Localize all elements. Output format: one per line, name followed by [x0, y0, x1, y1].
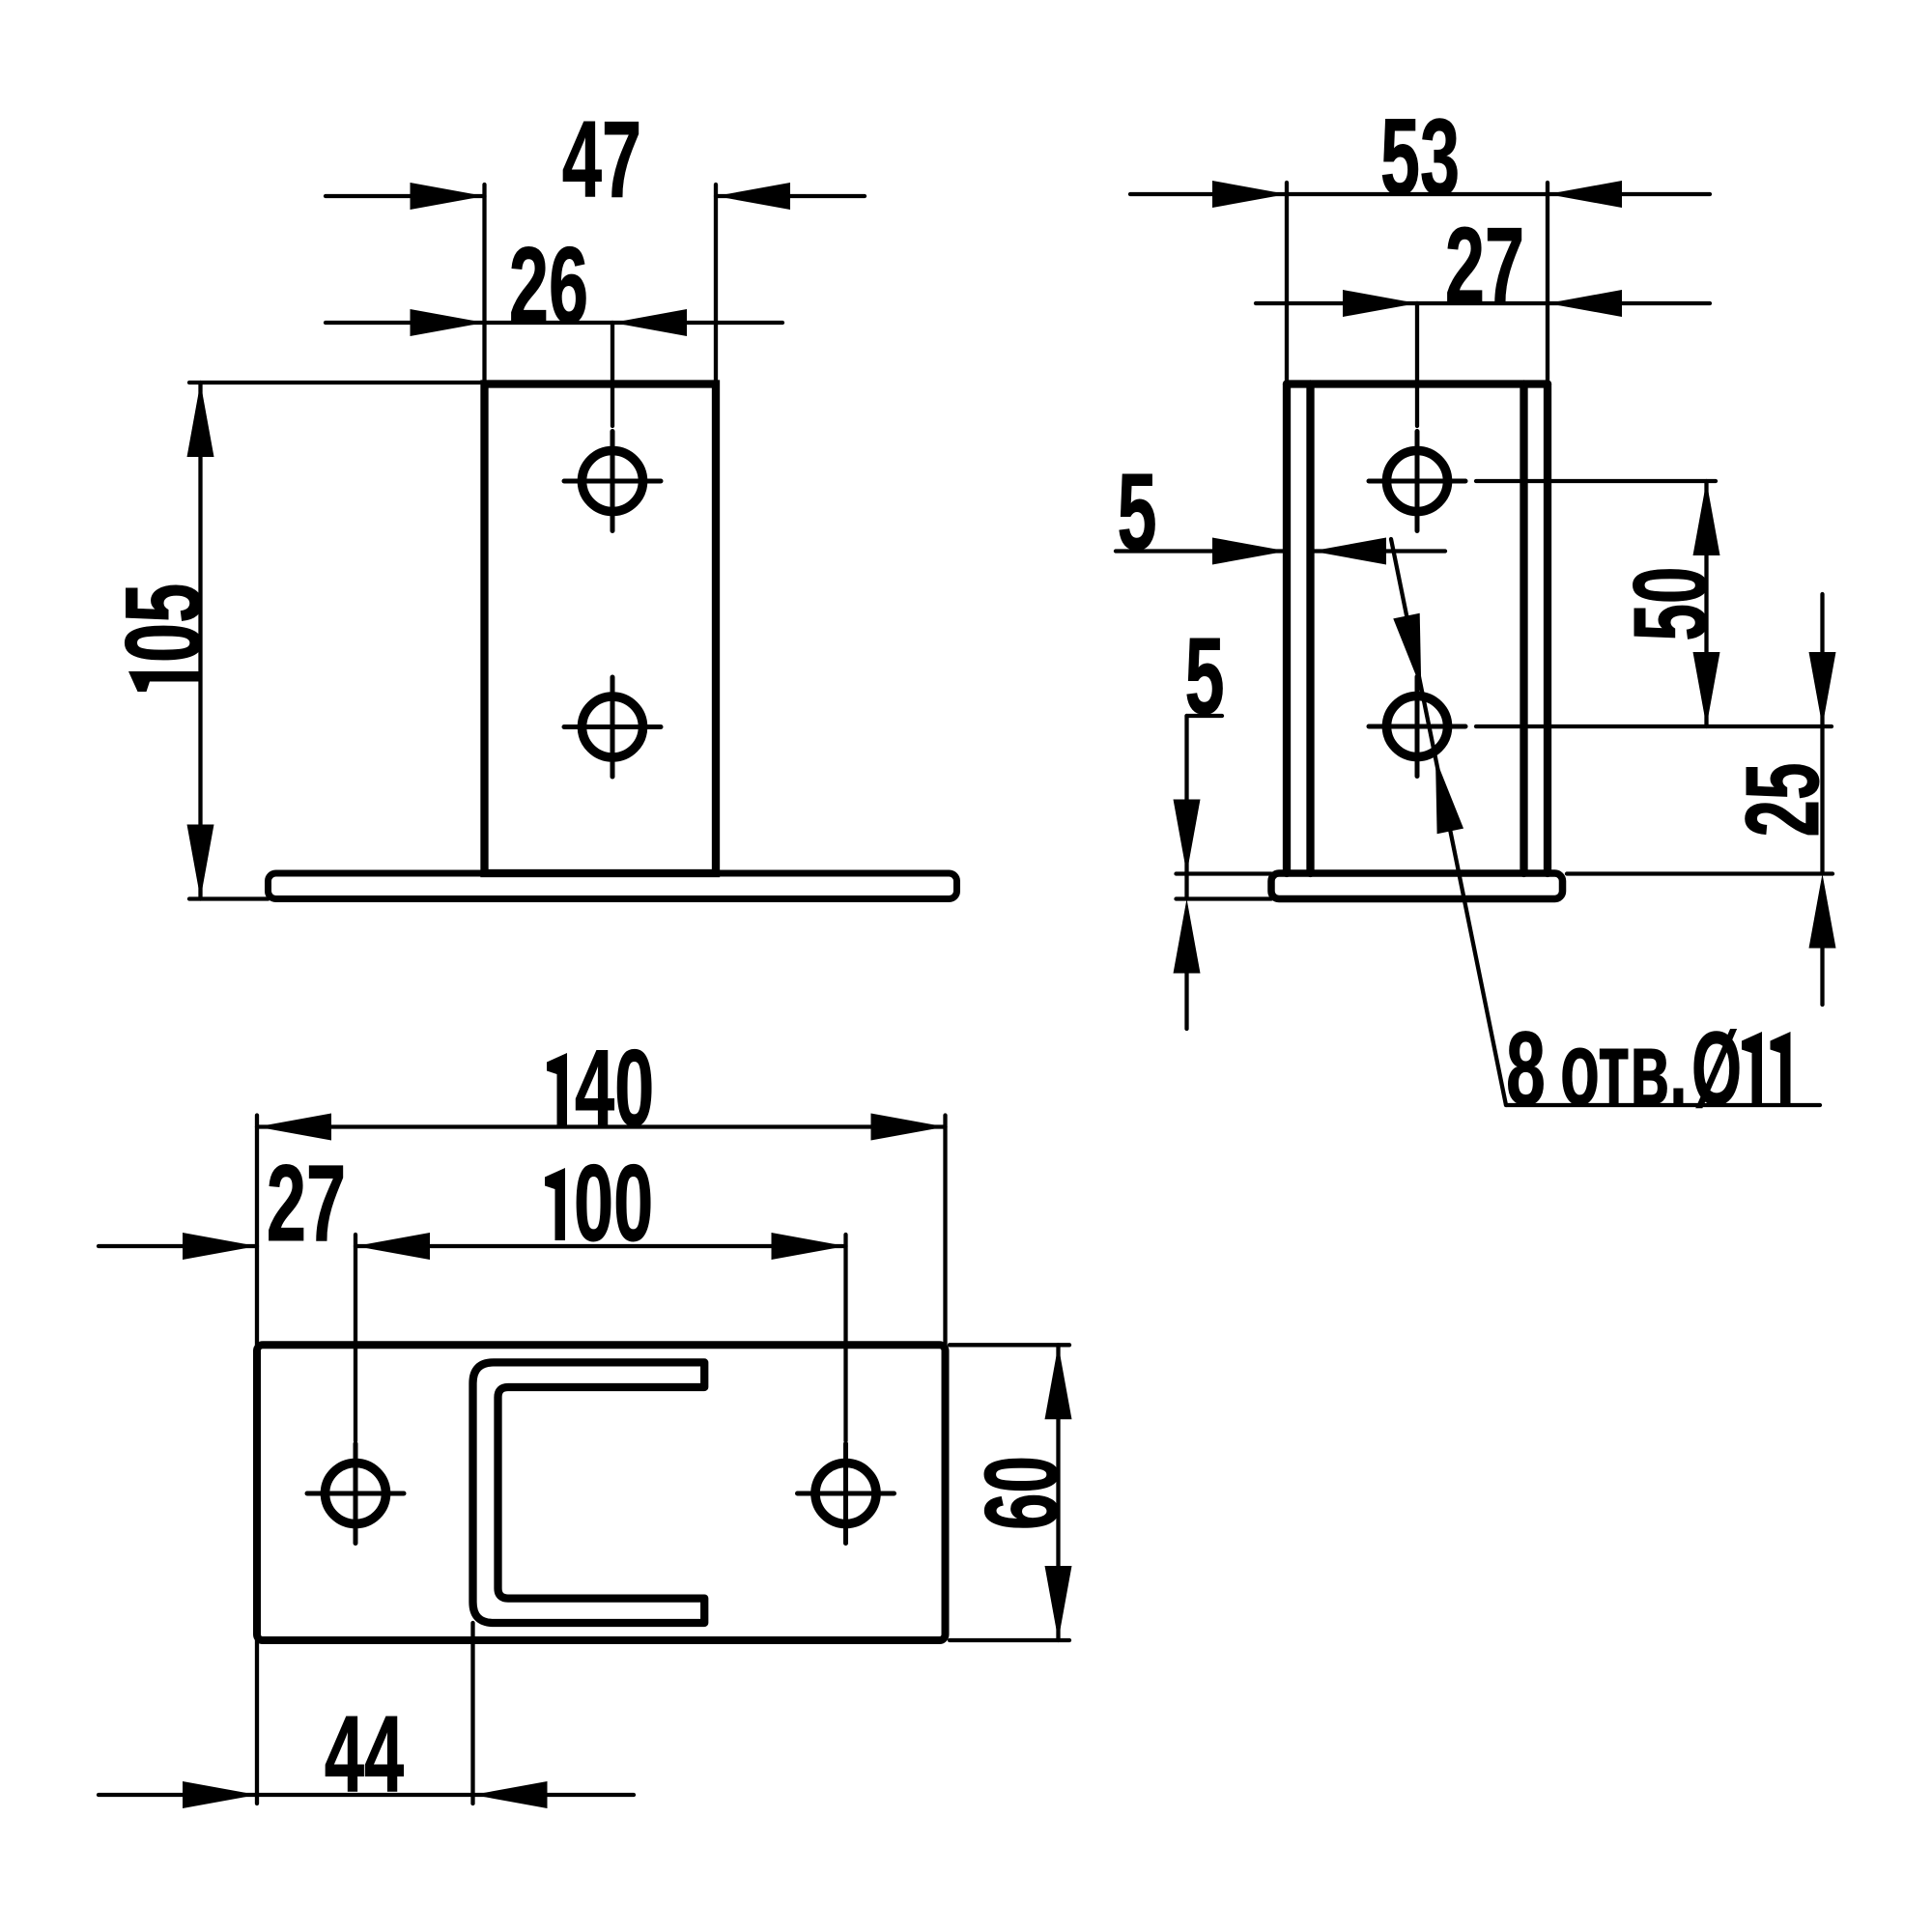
- svg-text:40: 40: [575, 1029, 654, 1150]
- svg-text:Ø: Ø: [1691, 1011, 1742, 1127]
- svg-text:47: 47: [562, 99, 641, 220]
- svg-text:60: 60: [964, 1456, 1080, 1530]
- svg-text:отв.: отв.: [1560, 1011, 1688, 1127]
- svg-text:27: 27: [267, 1144, 346, 1264]
- svg-text:05: 05: [104, 583, 225, 663]
- svg-text:27: 27: [1445, 206, 1524, 327]
- svg-text:5: 5: [1117, 452, 1156, 573]
- svg-text:25: 25: [1725, 763, 1841, 838]
- svg-text:5: 5: [1184, 616, 1224, 737]
- svg-text:8: 8: [1506, 1009, 1546, 1127]
- svg-text:53: 53: [1380, 98, 1460, 218]
- svg-text:50: 50: [1613, 567, 1729, 641]
- svg-text:26: 26: [509, 226, 588, 347]
- svg-text:00: 00: [574, 1144, 653, 1264]
- svg-text:44: 44: [325, 1694, 404, 1815]
